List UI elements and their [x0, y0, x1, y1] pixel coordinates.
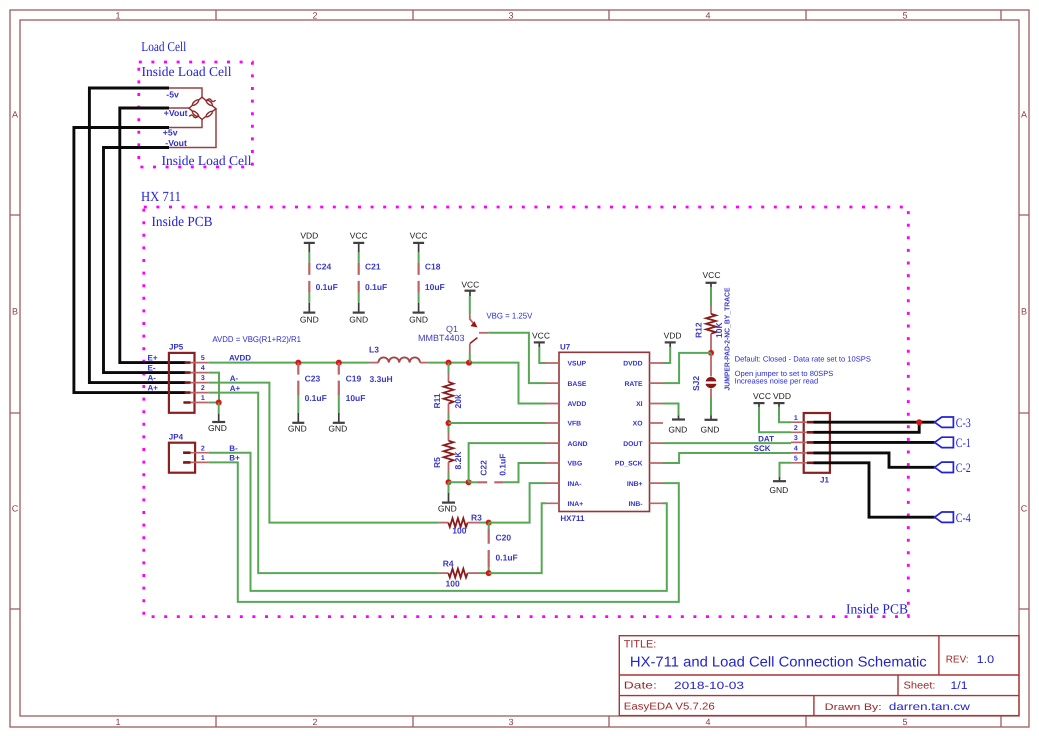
svg-text:darren.tan.cw: darren.tan.cw	[889, 701, 971, 713]
wire Q1 base to U7 BASE	[488, 333, 546, 383]
svg-text:5: 5	[902, 11, 907, 21]
svg-text:INB+: INB+	[627, 481, 643, 488]
ground under JP5	[208, 403, 227, 433]
svg-text:Inside Load Cell: Inside Load Cell	[142, 64, 232, 79]
wire J1 pin5 to GND	[780, 463, 792, 477]
power VDD above C24	[300, 230, 318, 252]
resistor R3 100	[439, 513, 489, 536]
svg-text:4: 4	[705, 717, 710, 727]
svg-text:INA+: INA+	[568, 501, 584, 508]
svg-text:B+: B+	[229, 454, 240, 463]
svg-text:GND: GND	[769, 485, 788, 495]
frame row letters right	[1021, 110, 1028, 514]
svg-text:SJ2: SJ2	[691, 376, 701, 391]
svg-text:C24: C24	[316, 262, 332, 272]
wire VCC to J1 pin2	[759, 407, 791, 432]
svg-text:5: 5	[201, 355, 205, 362]
svg-text:INB-: INB-	[629, 501, 643, 508]
svg-text:JP4: JP4	[169, 432, 184, 441]
svg-text:2018-10-03: 2018-10-03	[674, 680, 744, 692]
svg-text:0.1uF: 0.1uF	[497, 454, 507, 476]
wire black J1 pin4 to C-2	[814, 453, 935, 467]
U7 right pin names	[615, 361, 643, 508]
svg-text:DAT: DAT	[758, 434, 774, 443]
svg-text:A-: A-	[148, 373, 157, 382]
svg-text:B-: B-	[229, 444, 238, 453]
ground under C23	[288, 413, 307, 434]
wire AVDD net to U7 AVDD pin	[428, 363, 546, 404]
wire JP5 pin1 to GND	[209, 402, 219, 404]
wire AVDD main net	[209, 362, 369, 364]
svg-text:C-2: C-2	[956, 461, 971, 475]
svg-text:A-: A-	[230, 374, 239, 383]
svg-text:E-: E-	[148, 363, 156, 372]
power VCC above Q1	[461, 279, 479, 296]
frame column numbers bottom	[115, 717, 907, 727]
wire RATE to junction	[663, 353, 711, 383]
svg-text:3: 3	[794, 435, 798, 442]
wire R4 to U7 INA+	[489, 503, 546, 573]
frame column numbers top	[115, 11, 907, 21]
junction R3-C20	[486, 520, 492, 526]
svg-text:-5v: -5v	[166, 89, 179, 99]
net flag C-3	[935, 416, 971, 430]
svg-text:0.1uF: 0.1uF	[316, 282, 338, 292]
svg-text:GND: GND	[668, 425, 687, 435]
svg-text:Inside PCB: Inside PCB	[846, 602, 908, 617]
svg-text:L3: L3	[369, 345, 379, 355]
ground under C19	[328, 413, 347, 434]
net flag C-2	[935, 461, 971, 475]
svg-text:R12: R12	[694, 322, 704, 338]
wire VFB to U7	[449, 422, 547, 424]
ground under SJ2	[701, 397, 720, 435]
svg-text:A: A	[1021, 110, 1027, 120]
wire JP5 pin4 to GND	[209, 373, 219, 403]
svg-text:GND: GND	[409, 314, 428, 324]
wire B+ from JP4 pin1 to U7 INB+	[209, 462, 679, 602]
svg-text:GND: GND	[701, 425, 720, 435]
title block texts	[624, 639, 994, 713]
svg-text:A: A	[12, 110, 18, 120]
svg-text:Increases noise per read: Increases noise per read	[735, 376, 819, 385]
wire B- from JP4 pin2 to U7 INB-	[209, 453, 667, 591]
junction R12-SJ2-RATE	[708, 350, 714, 356]
load cell terminal labels	[163, 89, 188, 148]
svg-text:0.1uF: 0.1uF	[365, 282, 387, 292]
svg-text:3: 3	[508, 11, 513, 21]
junction C-3 net	[916, 419, 922, 425]
net flag C-1	[935, 436, 971, 450]
wire C22 to U7 VBG	[504, 463, 546, 482]
svg-text:2: 2	[312, 11, 317, 21]
svg-text:4: 4	[794, 446, 798, 453]
wire VCC to VSUP	[539, 347, 546, 363]
jumper SJ2	[691, 287, 732, 397]
svg-text:R3: R3	[471, 513, 482, 523]
svg-text:2: 2	[201, 385, 205, 392]
junction C23 top	[295, 360, 301, 366]
svg-text:VDD: VDD	[664, 331, 682, 341]
junction R4-C20	[486, 570, 492, 576]
svg-text:R5: R5	[432, 457, 442, 468]
frame row letters left	[12, 110, 19, 514]
connector JP4	[169, 432, 209, 472]
wire black J1 pin3 to C-1	[814, 441, 935, 444]
capacitor C23 0.1uF	[298, 363, 327, 413]
svg-text:10uF: 10uF	[346, 393, 366, 403]
svg-text:E+: E+	[148, 353, 158, 362]
wire A- from JP5 pin3 to R3	[209, 383, 439, 523]
svg-text:HX 711: HX 711	[141, 190, 181, 205]
svg-text:+Vout: +Vout	[164, 108, 188, 118]
svg-text:MMBT4403: MMBT4403	[418, 333, 465, 343]
power VCC above U7 VSUP	[532, 331, 550, 347]
svg-text:HX711: HX711	[560, 514, 585, 523]
resistor R11 20k	[432, 363, 463, 423]
svg-text:C-3: C-3	[956, 416, 971, 430]
load cell bridge (strain gauge diamond)	[189, 97, 216, 119]
svg-text:GND: GND	[349, 314, 368, 324]
dashed box Inside PCB	[144, 207, 909, 617]
svg-text:B: B	[12, 307, 18, 317]
svg-text:Sheet:: Sheet:	[904, 681, 936, 692]
svg-text:C-1: C-1	[956, 436, 971, 450]
svg-text:R11: R11	[432, 393, 442, 408]
svg-text:AGND: AGND	[568, 441, 588, 448]
svg-text:5: 5	[902, 717, 907, 727]
svg-text:VCC: VCC	[532, 331, 550, 341]
svg-text:XI: XI	[636, 401, 643, 408]
svg-text:Inside Load Cell: Inside Load Cell	[162, 153, 252, 168]
capacitor C18 10uF	[419, 252, 445, 302]
junction R11-R5 VFB	[446, 420, 452, 426]
svg-text:0.1uF: 0.1uF	[305, 393, 327, 403]
dashed box Inside Load Cell	[139, 62, 253, 167]
svg-text:INA-: INA-	[568, 481, 582, 488]
svg-text:100: 100	[446, 578, 460, 588]
svg-text:GND: GND	[438, 504, 457, 514]
ground under C24	[300, 303, 319, 325]
svg-text:3: 3	[201, 375, 205, 382]
svg-text:VCC: VCC	[703, 270, 721, 280]
svg-text:1: 1	[794, 415, 798, 422]
svg-text:VCC: VCC	[350, 230, 368, 240]
svg-text:JUMPER-PAD-2-NC_BY_TRACE: JUMPER-PAD-2-NC_BY_TRACE	[723, 287, 732, 390]
svg-text:RATE: RATE	[625, 381, 643, 388]
svg-text:1: 1	[201, 455, 205, 462]
connector JP5	[169, 343, 209, 413]
svg-text:-Vout: -Vout	[165, 138, 187, 148]
power VDD above J1	[773, 391, 791, 407]
connector J1	[791, 413, 830, 485]
svg-text:JP5: JP5	[169, 343, 184, 352]
power VCC above J1	[753, 391, 771, 407]
IC U7 HX711	[546, 343, 663, 523]
JP4 pin numbers	[201, 445, 205, 462]
svg-text:0.1uF: 0.1uF	[496, 553, 518, 563]
wire PD_SCK to J1 pin4	[663, 453, 791, 463]
power VDD above DVDD	[664, 331, 682, 347]
power VCC above C18	[410, 230, 428, 252]
svg-text:GND: GND	[208, 423, 227, 433]
svg-text:Inside PCB: Inside PCB	[152, 215, 213, 230]
svg-text:VCC: VCC	[753, 391, 771, 401]
svg-text:C20: C20	[496, 533, 512, 543]
svg-text:VBG: VBG	[568, 461, 583, 468]
svg-text:DOUT: DOUT	[623, 441, 643, 448]
wire AGND up to U7	[469, 443, 546, 482]
svg-text:BASE: BASE	[568, 381, 587, 388]
inductor L3 3.3uH	[369, 345, 420, 384]
svg-text:HX-711 and Load Cell Connectio: HX-711 and Load Cell Connection Schemati…	[630, 654, 927, 670]
svg-text:C18: C18	[425, 262, 441, 272]
title block	[619, 636, 1019, 716]
inductor L3 lead left	[369, 362, 379, 364]
svg-text:C: C	[1021, 504, 1028, 514]
svg-text:VBG = 1.25V: VBG = 1.25V	[486, 311, 532, 321]
svg-text:Drawn By:: Drawn By:	[825, 702, 882, 713]
svg-text:8.2K: 8.2K	[453, 451, 463, 470]
svg-text:U7: U7	[560, 343, 571, 352]
wire black +5v to JP5 A+	[74, 128, 186, 393]
svg-text:VCC: VCC	[410, 230, 428, 240]
wire DVDD to VDD	[663, 347, 670, 363]
junction C19 top	[336, 360, 342, 366]
JP5 net labels	[148, 353, 159, 392]
svg-text:C: C	[12, 504, 19, 514]
svg-text:GND: GND	[288, 424, 307, 434]
svg-text:VCC: VCC	[461, 279, 479, 289]
svg-text:1.0: 1.0	[977, 654, 995, 666]
svg-text:2: 2	[312, 717, 317, 727]
svg-text:2: 2	[794, 425, 798, 432]
U7 left pin names	[568, 361, 588, 508]
svg-text:VDD: VDD	[773, 391, 791, 401]
capacitor C24 0.1uF	[309, 252, 338, 302]
power VCC above C21	[350, 230, 368, 252]
wire black +Vout to JP5 E+	[120, 108, 186, 363]
svg-text:4: 4	[201, 365, 205, 372]
wire DOUT to J1 pin3	[663, 442, 791, 444]
svg-text:DVDD: DVDD	[623, 361, 642, 368]
svg-text:R4: R4	[443, 559, 454, 569]
svg-text:VSUP: VSUP	[568, 361, 587, 368]
svg-text:GND: GND	[328, 424, 347, 434]
svg-text:C-4: C-4	[956, 511, 971, 525]
svg-text:Default: Closed - Data rate se: Default: Closed - Data rate set to 10SPS	[735, 354, 871, 363]
svg-text:PD_SCK: PD_SCK	[615, 461, 643, 468]
svg-text:20k: 20k	[453, 394, 463, 408]
wire black -5v to JP5 A-	[89, 88, 185, 383]
capacitor C21 0.1uF	[359, 252, 388, 302]
svg-text:A+: A+	[230, 384, 241, 393]
net flag C-4	[935, 511, 972, 525]
junction JP5 gnd	[216, 400, 222, 406]
svg-text:100: 100	[452, 526, 466, 536]
junction R5 bottom	[446, 479, 452, 485]
capacitor C22 0.1uF	[469, 454, 508, 483]
svg-text:TITLE:: TITLE:	[624, 639, 656, 651]
wire XI to GND	[663, 404, 679, 416]
svg-text:Load Cell: Load Cell	[141, 39, 186, 54]
svg-text:Date:: Date:	[624, 681, 657, 692]
junction Q1 collector	[466, 360, 472, 366]
wire black -Vout to JP5 E-	[104, 148, 186, 373]
resistor R5 8.2K	[432, 423, 463, 482]
wire black J1 pin1 to C-3	[814, 421, 935, 424]
ground under XI	[668, 416, 687, 435]
wire black J1 pin2 up to C-3 net	[814, 422, 920, 432]
svg-text:GND: GND	[300, 314, 319, 324]
svg-text:J1: J1	[820, 476, 829, 485]
svg-text:3.3uH: 3.3uH	[370, 374, 393, 384]
svg-text:10uF: 10uF	[425, 282, 445, 292]
wire A+ from JP5 pin2 to R4	[209, 393, 439, 573]
svg-text:AVDD: AVDD	[568, 401, 587, 408]
svg-text:A+: A+	[148, 383, 159, 392]
resistor R12 10K	[694, 287, 725, 353]
wire VDD to J1 pin1	[779, 407, 791, 422]
junction R11 top	[446, 360, 452, 366]
svg-text:3: 3	[508, 717, 513, 727]
wire black J1 pin5 to C-4	[814, 463, 935, 517]
ground under J1	[769, 477, 788, 495]
svg-text:C22: C22	[478, 460, 488, 476]
ground under R5	[438, 482, 457, 513]
junction C22 left	[466, 479, 472, 485]
load cell bridge wires	[169, 88, 216, 148]
inductor L3 lead right	[420, 362, 428, 364]
svg-text:1: 1	[115, 11, 120, 21]
svg-text:XO: XO	[633, 421, 643, 428]
resistor R4 100	[439, 559, 489, 589]
power VCC above R12	[703, 270, 721, 287]
capacitor C19 10uF	[339, 363, 366, 413]
svg-text:C19: C19	[346, 374, 362, 384]
ground under C18	[409, 303, 428, 325]
capacitor C20 0.1uF	[489, 523, 518, 574]
svg-text:VFB: VFB	[568, 421, 582, 428]
svg-text:REV:: REV:	[946, 655, 969, 666]
svg-text:C21: C21	[365, 262, 381, 272]
svg-text:1: 1	[115, 717, 120, 727]
svg-text:1/1: 1/1	[951, 680, 968, 692]
svg-text:5: 5	[794, 456, 798, 463]
svg-text:EasyEDA V5.7.26: EasyEDA V5.7.26	[624, 701, 715, 712]
transistor Q1 MMBT4403	[418, 296, 488, 363]
wire R3 to U7 INA-	[489, 483, 546, 522]
JP5 pin numbers	[201, 355, 205, 402]
svg-text:AVDD: AVDD	[229, 353, 251, 362]
svg-text:VDD: VDD	[300, 230, 318, 240]
svg-text:C23: C23	[305, 374, 321, 384]
svg-text:+5v: +5v	[163, 128, 178, 138]
svg-text:SCK: SCK	[754, 444, 771, 453]
svg-text:B: B	[1021, 307, 1027, 317]
wire R5 bottom to C22 junction	[449, 481, 469, 483]
svg-text:1: 1	[201, 395, 205, 402]
J1 pin numbers	[794, 415, 798, 463]
svg-text:2: 2	[201, 445, 205, 452]
ground under C21	[349, 303, 368, 325]
svg-text:AVDD = VBG(R1+R2)/R1: AVDD = VBG(R1+R2)/R1	[212, 334, 301, 344]
svg-text:4: 4	[705, 11, 710, 21]
